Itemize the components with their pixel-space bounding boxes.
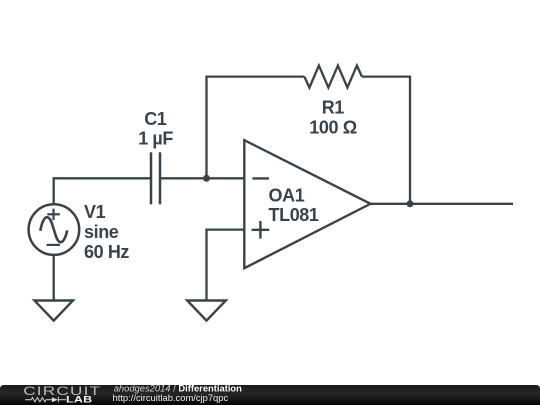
resistor R1 <box>304 66 362 88</box>
ground at V1 <box>34 301 73 321</box>
op-amp OA1 triangle <box>244 140 370 268</box>
svg-text:1 µF: 1 µF <box>138 129 173 149</box>
CircuitLab logo squiggle <box>25 397 66 403</box>
svg-text:60 Hz: 60 Hz <box>84 242 129 262</box>
wire: feedback top left segment <box>205 75 304 77</box>
node junction at output <box>407 200 414 207</box>
wire: feedback top right segment <box>362 75 411 77</box>
svg-text:C1: C1 <box>144 109 167 129</box>
label V1 value <box>84 202 129 262</box>
svg-text:LAB: LAB <box>66 395 92 405</box>
V1 plus sign <box>47 209 60 220</box>
wire: feedback vertical left <box>205 77 207 179</box>
label R1 value <box>309 98 356 138</box>
svg-text:sine: sine <box>84 222 119 242</box>
CircuitLab logo diode <box>52 397 58 402</box>
svg-text:100 Ω: 100 Ω <box>309 118 356 138</box>
wire: op-amp plus input <box>207 230 245 300</box>
voltage source V1 circle <box>29 204 80 255</box>
wire: V1 bottom to ground <box>53 255 55 300</box>
capacitor C1 <box>151 152 160 204</box>
label OA1 name <box>269 186 319 225</box>
ground at op-amp plus input <box>187 301 226 321</box>
wire: op-amp output <box>371 203 514 205</box>
node junction at C1 output <box>203 175 210 182</box>
V1 sine waveform <box>40 217 67 242</box>
wire: V1 top to C1 left plate <box>54 178 150 203</box>
wire: C1 right plate to op-amp minus input <box>161 177 244 179</box>
svg-text:http://circuitlab.com/cjp7qpc: http://circuitlab.com/cjp7qpc <box>113 392 229 403</box>
svg-text:TL081: TL081 <box>269 205 319 225</box>
svg-text:R1: R1 <box>322 98 345 118</box>
wire: feedback vertical right <box>409 77 411 204</box>
svg-text:V1: V1 <box>84 202 106 222</box>
op-amp plus pin sign <box>252 221 270 239</box>
op-amp minus pin sign <box>252 177 269 179</box>
V1 minus sign <box>47 244 60 246</box>
svg-text:OA1: OA1 <box>269 186 305 206</box>
label C1 value <box>138 109 173 149</box>
